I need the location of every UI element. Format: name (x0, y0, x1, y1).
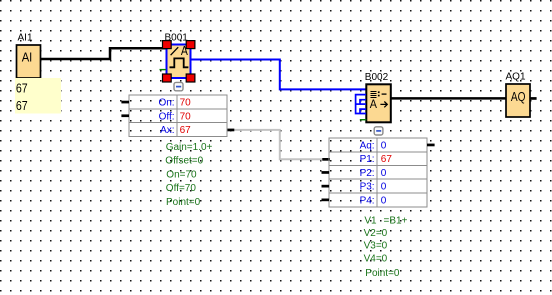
green stub B002 input (360, 119, 367, 121)
svg-text:Off=70: Off=70 (166, 183, 197, 194)
input block AI1 (17, 45, 41, 78)
selection handle B001 top-right (186, 41, 195, 49)
green stub B001 input (160, 69, 167, 71)
icon pulse (170, 58, 189, 67)
svg-text:AQ: AQ (511, 90, 526, 104)
parameter box B002 (329, 138, 427, 207)
svg-text:Point=0: Point=0 (365, 268, 400, 279)
svg-text:P2:: P2: (360, 168, 375, 179)
svg-text:0: 0 (381, 182, 387, 193)
parameter box B001 (129, 95, 227, 136)
icon bars (370, 91, 376, 98)
selection handle B001 top-left (163, 41, 172, 49)
analog threshold trigger B001 (selected) (167, 43, 191, 78)
tick Aq output (427, 144, 435, 147)
svg-text:AI: AI (22, 51, 33, 65)
parameter text B001 (green) (165, 142, 212, 208)
svg-text:V3=0: V3=0 (364, 241, 388, 252)
wire Ax to P1 (gray reference wire) (231, 130, 325, 159)
svg-text:V1: V1 (364, 216, 377, 227)
svg-text:On:: On: (158, 98, 174, 109)
svg-text:67: 67 (16, 99, 28, 113)
wire AI1 to B001 (41, 48, 167, 59)
svg-text:70: 70 (180, 98, 192, 109)
value highlight AI1 (15, 78, 61, 114)
svg-text:P3:: P3: (360, 182, 375, 193)
svg-text:P1:: P1: (360, 154, 375, 165)
wire B001 to B002 (blue) (191, 60, 367, 90)
svg-text:Ax:: Ax: (160, 125, 174, 136)
icon slash-A (171, 47, 179, 55)
tick Off input (121, 114, 129, 117)
collapse button B002 (374, 127, 383, 135)
selection handle B001 bottom-right (186, 74, 195, 82)
icon arrow (380, 102, 387, 108)
collapse button B001 (174, 82, 183, 90)
svg-text:V4=0: V4=0 (364, 254, 388, 265)
svg-text:Point=0: Point=0 (166, 197, 201, 208)
svg-text:67: 67 (180, 125, 192, 136)
tick AQ1 output (530, 97, 537, 100)
svg-text:=B1+: =B1+ (384, 216, 408, 227)
svg-text:Aq:: Aq: (360, 141, 375, 152)
svg-text:0: 0 (381, 141, 387, 152)
wire B002 to AQ1 (391, 97, 506, 100)
parameter text B002 (green) (364, 216, 408, 279)
svg-text:0: 0 (381, 168, 387, 179)
analog amplifier B002 (366, 84, 391, 122)
svg-text:V2=0: V2=0 (364, 228, 388, 239)
svg-text:B002: B002 (365, 72, 389, 83)
svg-text:P4:: P4: (360, 195, 375, 206)
icon colon (378, 91, 380, 93)
unconnected input pins B002 (blue brackets) (356, 95, 366, 114)
svg-text:AQ1: AQ1 (506, 71, 526, 82)
icon dash (382, 93, 387, 95)
svg-text:0: 0 (381, 195, 387, 206)
svg-text:67: 67 (16, 81, 28, 95)
tick at Ax output (227, 129, 234, 132)
svg-text:67: 67 (381, 154, 393, 165)
output block AQ1 (506, 84, 530, 117)
selection rectangle (167, 45, 191, 79)
svg-text:70: 70 (180, 111, 192, 122)
svg-text:A: A (370, 97, 377, 111)
svg-text:AI1: AI1 (18, 33, 33, 44)
svg-text:Offset=0: Offset=0 (165, 156, 203, 167)
tick P4 input (322, 199, 330, 202)
selection handle B001 bottom-left (163, 74, 172, 82)
svg-text:Gain=1.0+: Gain=1.0+ (166, 142, 213, 153)
tick P3 input (322, 185, 330, 188)
svg-text:On=70: On=70 (166, 169, 197, 180)
tick P2 input (322, 171, 330, 174)
svg-text:Off:: Off: (159, 111, 175, 122)
tick On input (121, 101, 129, 104)
tick at P1 input (322, 158, 330, 161)
